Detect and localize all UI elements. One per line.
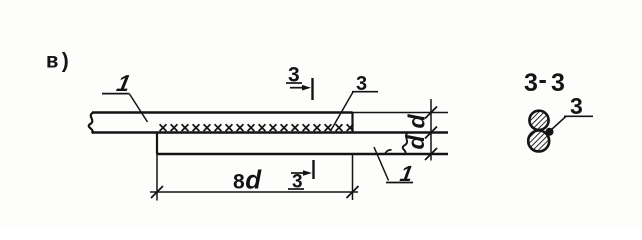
- label 1 (lower bar): digit: [396, 161, 417, 186]
- label 3 weld: leader: [331, 92, 354, 131]
- label 1 (upper bar): [112, 71, 135, 97]
- svg-text:в): в): [46, 52, 71, 75]
- section view: weld point dot: [546, 128, 554, 136]
- weld seam X marks: [160, 124, 354, 131]
- section mark 3 (bottom): cut line: [312, 160, 314, 179]
- svg-text:-: -: [539, 66, 547, 94]
- section view label 3: underline: [564, 115, 593, 117]
- bar 1 upper: left break line: [89, 113, 93, 134]
- 8d tick left: [151, 186, 163, 198]
- 8d extension line right: [352, 154, 354, 200]
- bar 1 upper: top edge: [92, 111, 353, 113]
- label 1 (lower bar): tick on bar edge: [385, 150, 392, 154]
- section view label 3: leader: [551, 116, 566, 130]
- bar 1 lower: bottom edge: [157, 153, 448, 155]
- section mark 3 (top): cut line: [311, 78, 313, 100]
- svg-text:8d: 8d: [233, 165, 262, 195]
- svg-text:3: 3: [551, 69, 565, 97]
- bar 1 upper: right end: [351, 113, 353, 133]
- 8d extension line left: [156, 154, 158, 201]
- svg-text:3: 3: [570, 93, 583, 119]
- section view: upper rebar circle: [529, 111, 548, 130]
- label 3 weld: underline: [352, 91, 378, 93]
- section view: lower rebar circle: [528, 131, 549, 152]
- svg-text:3: 3: [524, 69, 538, 97]
- d dimension tick top: [425, 107, 437, 119]
- section mark 3 (top): underline: [286, 82, 302, 84]
- label 1 (lower bar): leader: [374, 147, 389, 181]
- shared middle line (bottom of upper bar / top of lower bar): [92, 131, 448, 134]
- bar 1 lower: left end: [156, 133, 158, 155]
- section mark 3 (top): arrow: [290, 87, 304, 89]
- svg-text:d: d: [403, 135, 429, 150]
- d dimension tick middle: [425, 127, 437, 139]
- bar 1 lower: right break line: [403, 133, 408, 155]
- label 1 underline: [102, 93, 130, 95]
- 8d dimension line: [150, 191, 358, 193]
- 8d tick right: [347, 186, 359, 198]
- top edge extension line to d dimension: [353, 112, 449, 114]
- svg-text:d: d: [404, 114, 430, 129]
- d dimension tick bottom: [425, 148, 437, 160]
- section mark 3 (bottom): underline: [288, 188, 304, 190]
- section mark 3 (bottom): arrow: [291, 172, 305, 174]
- d dimension line (vertical, right): [430, 99, 432, 161]
- label 1 (lower bar): underline: [386, 182, 413, 184]
- label 1 leader: [130, 94, 148, 122]
